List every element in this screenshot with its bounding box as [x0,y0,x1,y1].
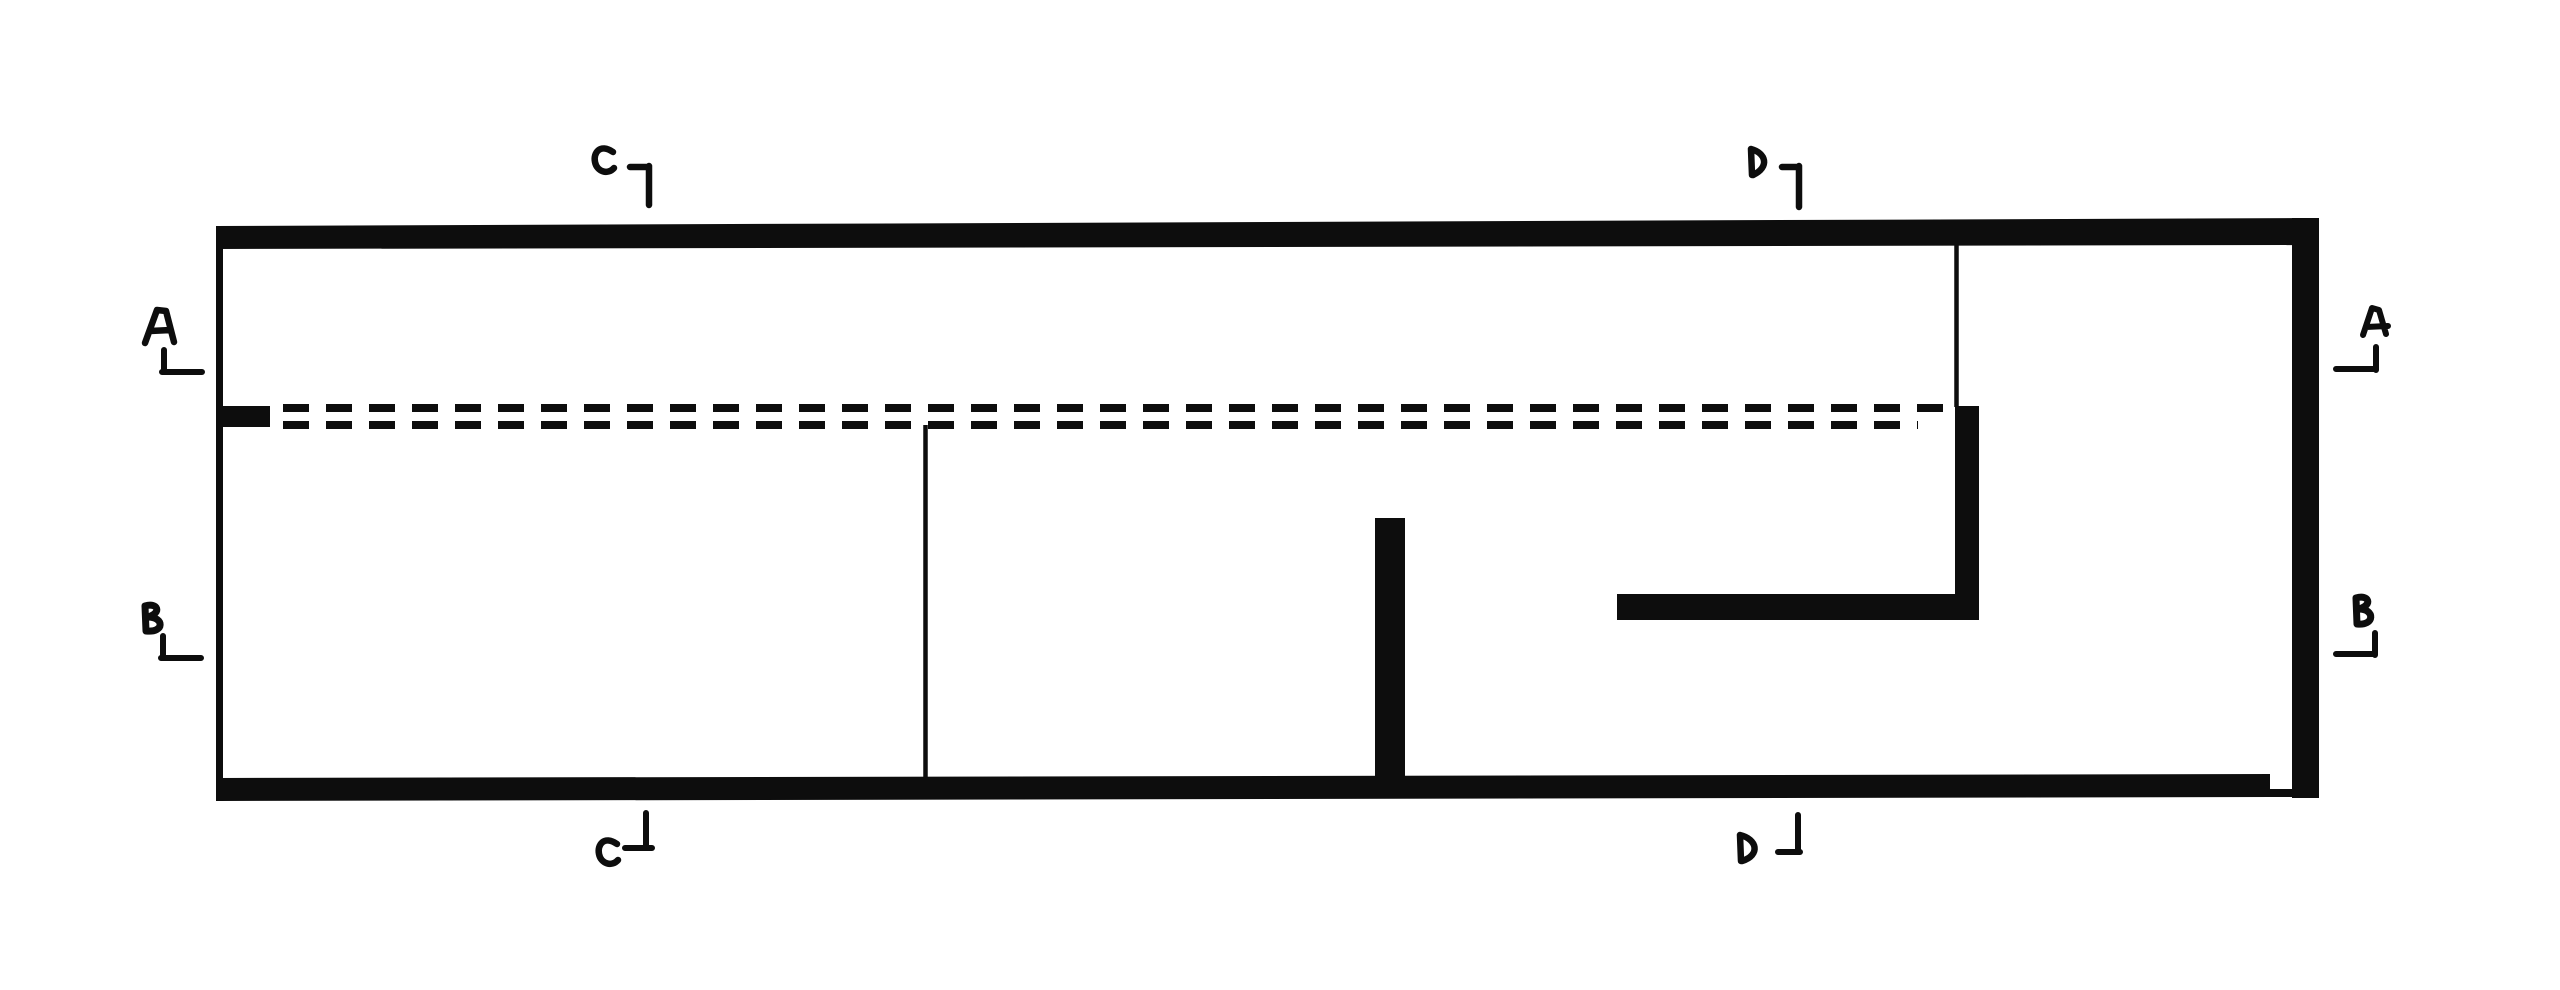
L-wall horizontal part [1617,594,1979,620]
right wall [2292,218,2319,798]
section mark A right [2336,347,2376,370]
bottom wall [219,774,2270,801]
label A left [145,310,174,343]
label D top [1751,149,1764,175]
dashed line lower [283,421,1918,429]
section mark C bottom [625,813,652,848]
left wall [216,226,223,801]
section mark D top [1782,166,1799,207]
wall stub on left wall [220,406,270,427]
thin partition line middle [923,425,928,778]
label B left [145,605,160,631]
label B right [2356,597,2371,624]
dashed line upper [283,404,1956,412]
section mark C top [630,166,649,205]
top wall [217,218,2319,249]
section mark D bottom [1778,815,1800,852]
middle partition wall [1375,518,1405,798]
section mark A left [162,350,202,372]
label D bottom [1740,835,1755,861]
label C bottom [599,840,618,863]
label A right [2363,308,2388,335]
label C top [595,148,614,171]
section mark B left [161,636,201,658]
thin line from top wall to L-wall [1954,244,1959,407]
bottom wall thin strip at right [2270,789,2294,797]
section mark B right [2336,633,2375,655]
L-wall vertical part [1955,406,1979,620]
